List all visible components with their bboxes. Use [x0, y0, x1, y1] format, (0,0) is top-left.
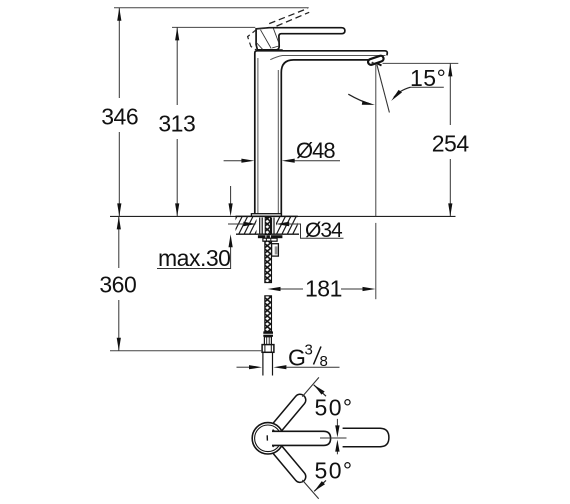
- svg-text:346: 346: [101, 103, 138, 129]
- extension line top (346 ref, raised lever tip): [114, 7, 309, 9]
- handle lever raised +50 (top-right): [269, 392, 308, 436]
- flexible hose lower section: [265, 296, 272, 332]
- svg-text:181: 181: [305, 275, 342, 301]
- svg-text:254: 254: [432, 130, 470, 156]
- shank walls inside countertop hole: [260, 218, 274, 235]
- G3/8 connection nut: [262, 345, 274, 353]
- svg-text:Ø48: Ø48: [296, 138, 335, 163]
- 50 deg reference line lower: [302, 480, 318, 499]
- hidden lever end marks inside circle: [267, 430, 275, 447]
- dimension 313: [158, 27, 195, 216]
- svg-text:G: G: [288, 345, 306, 371]
- svg-text:15°: 15°: [410, 65, 446, 91]
- handle cartridge housing (side view): [256, 28, 345, 50]
- extension line 313 ref (lever top): [172, 26, 255, 28]
- spout (top view): [343, 428, 389, 446]
- svg-text:Ø34: Ø34: [305, 219, 343, 242]
- faucet body and spout outline (side view): [255, 51, 388, 217]
- housing base plate: [257, 49, 282, 51]
- dimension 360: [99, 216, 136, 350]
- dimension 181: [268, 223, 376, 302]
- label 15deg with underline and leader: [411, 86, 444, 88]
- aerator at spout tip: [367, 55, 384, 66]
- handle lever lowered -50 (bottom-right): [269, 441, 308, 485]
- svg-text:313: 313: [158, 110, 195, 136]
- dashed raised lever (open position): [269, 8, 309, 26]
- extension line 360 bottom: [110, 350, 262, 352]
- slanted water stream line: [377, 64, 390, 112]
- dimension 346: [101, 8, 138, 217]
- horseshoe washer below countertop: [258, 235, 283, 238]
- vertical reference line from aerator: [375, 65, 377, 217]
- faucet inner contour thin lines: [258, 56, 386, 217]
- svg-text:max.30: max.30: [158, 245, 230, 271]
- 50 deg reference line upper: [302, 377, 319, 396]
- hose end ferrule: [263, 331, 273, 333]
- mounting nut: [263, 238, 277, 241]
- extension line 254 top (aerator level): [383, 62, 459, 64]
- dimension max.30: [157, 186, 233, 271]
- lever axis centerline: [320, 437, 347, 439]
- dashed housing ghost (rotated): [248, 29, 257, 50]
- mounting flange at faucet base: [251, 214, 281, 217]
- 15 degree spray angle annotation: [348, 64, 446, 216]
- svg-text:50°: 50°: [315, 457, 354, 483]
- svg-text:50°: 50°: [315, 394, 354, 420]
- countertop bottom edge: [236, 233, 299, 235]
- countertop surface reference line: [110, 215, 456, 217]
- svg-text:3: 3: [305, 342, 313, 359]
- label 50 deg lower with leader arrow: [314, 457, 353, 491]
- valve body circle (top view): [252, 423, 283, 454]
- svg-text:8: 8: [320, 353, 328, 370]
- non-return fitting on hose: [272, 244, 279, 256]
- dimension 254: [432, 63, 470, 216]
- label 50 deg upper with leader arrow: [314, 385, 354, 421]
- threaded stud inside hole: [265, 217, 270, 235]
- swing arc arrow: [348, 94, 371, 104]
- flexible hose upper section: [265, 241, 272, 282]
- G3/8 threaded pipe end: [263, 352, 273, 375]
- svg-text:360: 360: [99, 271, 136, 297]
- hose end hex section: [264, 337, 271, 345]
- dimension Ø34 with leader: [228, 219, 344, 242]
- countertop hatched section: [110, 212, 456, 238]
- handle lever horizontal position: [272, 431, 331, 445]
- dimension G3/8: [237, 342, 340, 371]
- dimension Ø48: [224, 138, 340, 163]
- bowtie angle arrows at lever axis: [335, 419, 339, 454]
